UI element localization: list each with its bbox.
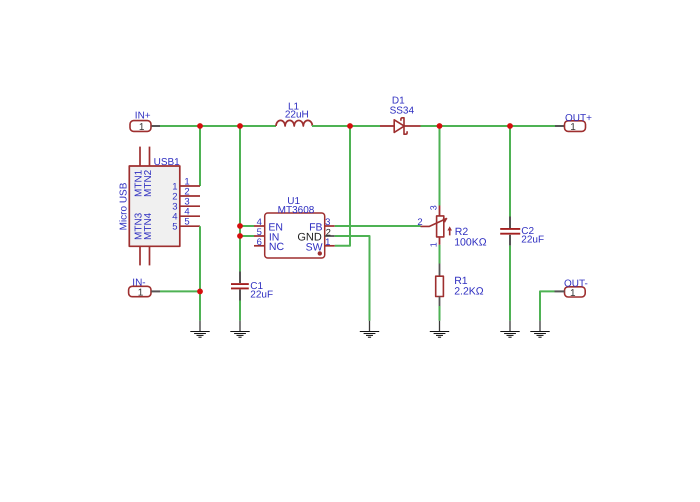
svg-text:5: 5 [184,217,189,228]
wire FB to R2 wiper [335,225,421,227]
junction IN tap [237,233,243,239]
svg-text:1: 1 [139,122,145,133]
USB1 pin 4 [180,215,200,217]
wire GND pin to ground [335,236,370,321]
component USB1 Micro USB [119,147,201,266]
svg-text:6: 6 [257,237,262,248]
junction at C1 column [237,123,243,129]
wire IN- to junction [160,290,200,292]
wire C2 to ground [509,246,511,321]
ground under U1 [360,321,379,338]
svg-text:2.2KΩ: 2.2KΩ [454,286,484,298]
svg-text:IN-: IN- [132,278,145,289]
USB1 pin 2 [180,195,200,197]
svg-text:SS34: SS34 [390,106,415,117]
svg-text:1: 1 [138,287,144,298]
svg-text:OUT-: OUT- [564,279,588,290]
U1 pin 2 GND [325,235,335,237]
ground under R1 [430,321,449,338]
wire R2 to R1 [439,245,441,264]
wire C1 to ground [239,301,241,321]
svg-text:1: 1 [428,242,438,247]
connector OUT+ [555,113,592,133]
wire rail to R2 [439,126,441,206]
wire to IN pin [240,235,254,237]
svg-text:OUT+: OUT+ [565,113,592,124]
svg-text:Micro USB: Micro USB [119,182,130,230]
junction C2 column [507,123,513,129]
junction R2 column [437,123,443,129]
U1 pin 1 SW [325,245,335,247]
wire L1 to D1 [312,125,380,127]
IC U1 MT3608 boost converter [254,196,335,258]
connector OUT- [555,279,588,299]
ground under C2 [500,321,519,338]
junction SW column [347,123,353,129]
junction IN- node [197,289,203,295]
ground under IN- [190,321,209,338]
svg-text:5: 5 [172,222,177,233]
svg-text:USB1: USB1 [154,157,181,168]
junction at USB column [197,123,203,129]
wire top rail to USB pin1 [199,126,201,186]
potentiometer R2 [417,205,486,249]
U1 pin 6 NC [254,245,265,247]
svg-text:IN+: IN+ [135,111,151,122]
USB1 pin 1 [180,185,200,187]
wire D1 to OUT+ [421,125,556,127]
svg-text:3: 3 [428,205,438,210]
connector IN- [129,278,160,299]
svg-text:3: 3 [325,217,330,228]
connector IN+ [130,111,160,133]
junction EN tap [237,223,243,229]
wire IN+ to L1 [160,125,276,127]
wire SW vertical [335,126,350,246]
svg-text:1: 1 [325,237,330,248]
capacitor C1 [231,272,273,301]
svg-text:100KΩ: 100KΩ [454,237,487,249]
wire OUT- to ground [540,291,555,320]
USB1 pin 5 [180,225,200,227]
ground under C1 [230,321,249,338]
svg-text:MTN2: MTN2 [143,169,154,197]
diode D1 SS34 [380,96,421,135]
wire USB pin5 to IN- junction and ground [199,226,201,321]
R2 adjustment arrow [449,230,451,236]
wire rail to C2 [509,126,511,217]
U1 pin1 marker dot [318,251,322,255]
U1 pin 3 FB [325,225,335,227]
wire top rail to C1 [239,126,241,272]
svg-text:MT3608: MT3608 [278,205,315,216]
USB1 mount stubs top [139,147,141,166]
inductor L1 [276,101,312,126]
wire R1 to ground [439,306,441,321]
resistor R1 [436,264,484,307]
USB1 mount stubs bottom [139,246,141,265]
capacitor C2 [500,217,544,246]
svg-text:22uH: 22uH [285,109,309,120]
ground under OUT- [530,321,549,338]
svg-text:22uF: 22uF [250,290,273,301]
wire to EN pin [240,225,254,227]
USB1 pin 3 [180,205,200,207]
U1 pin 5 IN [254,235,265,237]
svg-text:22uF: 22uF [521,234,544,245]
svg-text:MTN4: MTN4 [143,212,154,240]
U1 pin 4 EN [254,225,265,227]
svg-text:NC: NC [269,241,285,253]
